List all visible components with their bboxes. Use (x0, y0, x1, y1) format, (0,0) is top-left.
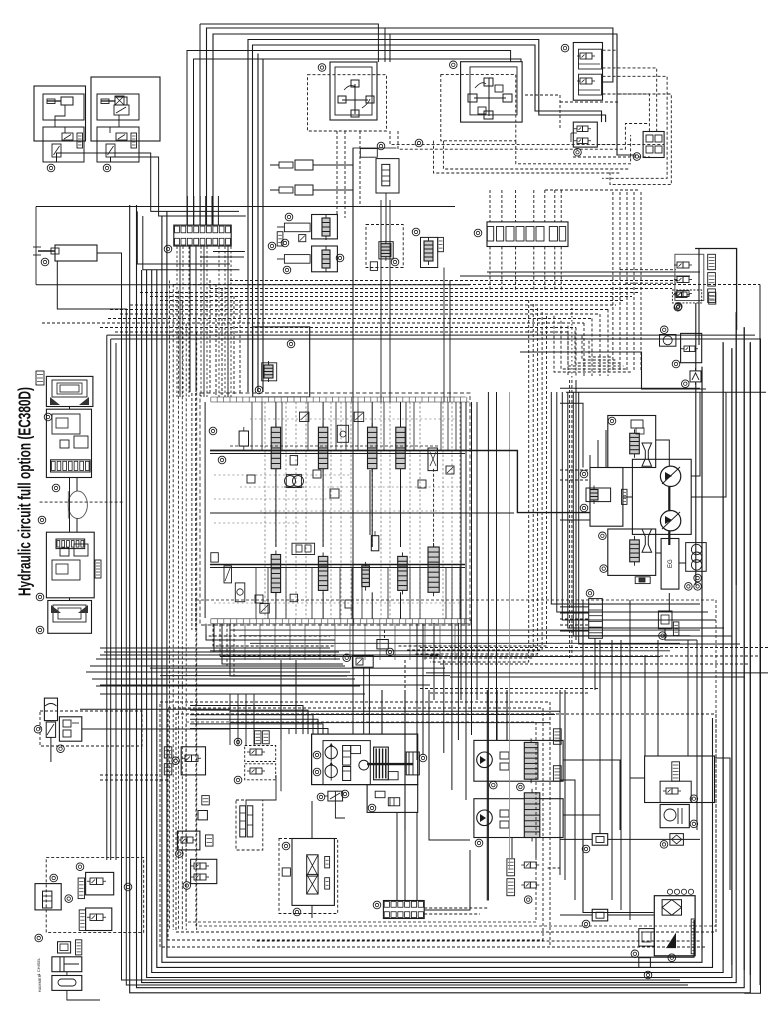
wire (560, 914, 592, 916)
check C1 (239, 427, 248, 450)
wire (115, 343, 117, 860)
spool MB (264, 361, 273, 382)
wire (199, 24, 201, 225)
spool TP2 (322, 246, 330, 272)
node (524, 896, 532, 904)
swing valve lower (608, 529, 656, 575)
node (685, 583, 693, 591)
pump housing (312, 734, 418, 785)
wire (419, 568, 421, 619)
label (263, 731, 270, 744)
wire (257, 54, 259, 393)
wire (696, 640, 698, 830)
node (586, 589, 594, 597)
regulator cap1 (343, 746, 351, 766)
label (553, 729, 561, 745)
wire (204, 402, 206, 618)
valve m1 (300, 412, 309, 421)
hammer block (52, 976, 82, 991)
node (47, 164, 55, 172)
wire (394, 624, 396, 660)
node (574, 149, 582, 157)
wire (560, 469, 590, 471)
valve m7 (313, 470, 321, 478)
wire (179, 247, 181, 398)
pedal cylinder P1 (270, 160, 313, 170)
wire (691, 392, 700, 476)
valve swu1 (631, 420, 644, 434)
node (293, 908, 301, 916)
valve mcv extra3 (418, 480, 426, 488)
wire (322, 592, 324, 618)
wire (304, 624, 306, 660)
wire (262, 946, 706, 948)
wire (143, 216, 240, 270)
node (419, 754, 427, 762)
wire (340, 402, 342, 619)
wire (623, 496, 633, 498)
valve TR2 (577, 74, 602, 95)
valve LP1 (245, 746, 276, 762)
wire (404, 660, 406, 690)
label (202, 796, 210, 805)
wire (209, 280, 211, 395)
wire (352, 290, 354, 734)
valve block BM (377, 640, 388, 649)
node (234, 776, 242, 784)
wire (371, 592, 373, 618)
node (582, 845, 590, 853)
wire (182, 247, 184, 398)
filter capsule B (247, 806, 253, 837)
node (580, 470, 588, 478)
spool S5 (271, 551, 280, 597)
wire (573, 392, 732, 636)
valve mcv extra5 (345, 600, 353, 608)
valve BM2 (352, 656, 373, 667)
wire (90, 665, 345, 667)
dashed box LL (40, 711, 142, 746)
node (318, 64, 326, 72)
wire (424, 850, 470, 910)
wire (190, 729, 328, 735)
label (691, 919, 695, 954)
wire (571, 300, 573, 380)
wire (172, 284, 174, 930)
wire (603, 50, 650, 131)
wire (230, 247, 232, 398)
node (694, 574, 702, 582)
wire (566, 391, 766, 393)
wire (322, 469, 324, 547)
wire (398, 316, 547, 646)
label (164, 747, 172, 758)
wire (267, 568, 269, 619)
wire (603, 68, 657, 131)
wire (57, 261, 688, 985)
wire (189, 246, 191, 392)
wire (210, 288, 672, 290)
wire (230, 445, 440, 447)
wire (419, 402, 421, 619)
valve m14 (292, 543, 315, 554)
wire (501, 190, 503, 222)
wire (533, 190, 535, 222)
wire (111, 339, 761, 993)
wire (186, 196, 188, 225)
wire (451, 623, 453, 790)
wire (162, 216, 702, 962)
valve m8 (446, 466, 454, 474)
wire (281, 402, 283, 451)
valve PF1 (674, 262, 692, 268)
wire (426, 672, 768, 674)
wire (110, 309, 608, 311)
valve block MR (573, 122, 597, 147)
wire (583, 323, 585, 376)
valve m10 (224, 566, 232, 583)
label (76, 940, 82, 955)
wire (97, 253, 680, 980)
wire (285, 568, 287, 619)
wire (194, 59, 522, 225)
spool S2 (318, 423, 327, 473)
valve m11 (235, 583, 245, 602)
connector B2 (592, 909, 608, 921)
wire (409, 624, 411, 660)
wire (389, 34, 391, 62)
node (52, 484, 60, 492)
label (206, 835, 214, 846)
wire (568, 326, 623, 366)
wire (656, 440, 670, 466)
wire (206, 247, 208, 398)
label (553, 766, 561, 782)
wire (140, 292, 640, 294)
spool S7 (362, 562, 370, 591)
wire (487, 271, 700, 273)
wire (563, 815, 600, 834)
wire (230, 280, 680, 282)
wire (307, 402, 309, 451)
wire (608, 914, 655, 916)
wire (560, 403, 583, 467)
wire (443, 660, 445, 753)
node (373, 901, 381, 909)
wire (459, 402, 461, 619)
node (391, 258, 399, 266)
wire (633, 192, 635, 370)
swing valve upper (608, 416, 656, 468)
label (77, 133, 83, 148)
wire (245, 694, 247, 745)
spool S9 (428, 543, 439, 596)
hourglass D (642, 529, 652, 552)
wire (168, 281, 170, 931)
wire (176, 247, 178, 398)
svg-text:HAMMER: HAMMER (37, 974, 42, 992)
wire (66, 972, 68, 976)
wire (160, 300, 624, 302)
valve MS2 (198, 811, 207, 820)
wire (295, 402, 297, 619)
wire (605, 430, 607, 468)
wire (560, 630, 589, 632)
node (675, 303, 683, 311)
wire (459, 568, 461, 619)
wire (424, 913, 480, 915)
wire (130, 205, 751, 993)
wire (560, 780, 575, 900)
valve pr1 (351, 746, 361, 754)
wire (443, 141, 630, 169)
node (336, 254, 344, 262)
wire (406, 312, 542, 650)
wire (222, 624, 343, 664)
wire (607, 310, 609, 377)
wire (679, 562, 686, 564)
wire (371, 402, 373, 427)
wire (429, 690, 470, 840)
label (325, 878, 330, 889)
label (622, 489, 628, 504)
wire (476, 402, 478, 700)
wire (211, 196, 213, 225)
wire (594, 638, 596, 690)
pump P1 (325, 743, 337, 761)
wire (533, 247, 535, 291)
wire (560, 606, 589, 608)
wire (239, 300, 241, 395)
wire (695, 383, 697, 585)
spool S6 (318, 552, 327, 594)
motor housing T1 (46, 376, 93, 406)
gallery (210, 567, 465, 569)
label (709, 292, 716, 304)
wire (451, 402, 453, 619)
wire (82, 728, 230, 730)
node (282, 842, 290, 850)
wire (389, 200, 391, 402)
wire (227, 292, 229, 395)
tank frame (654, 896, 695, 956)
wire (489, 190, 491, 222)
wire (465, 402, 467, 705)
fan motor 2 (477, 810, 493, 826)
wire (345, 402, 347, 451)
valve PV (382, 164, 390, 185)
wire (330, 402, 332, 619)
gauge g2 (691, 552, 701, 562)
label (255, 731, 262, 744)
node (631, 950, 639, 958)
valve BL2 (86, 908, 112, 931)
node (412, 228, 420, 236)
wire (305, 402, 307, 619)
shaft (668, 487, 670, 512)
wire (381, 690, 383, 734)
wire (560, 479, 590, 481)
cooler frame (292, 839, 334, 906)
pilot valve RH (308, 62, 387, 131)
joystick cross LH (468, 78, 512, 119)
wire (564, 690, 566, 880)
wire (191, 393, 193, 630)
wire (551, 392, 700, 604)
node (582, 920, 590, 928)
node (285, 213, 293, 221)
wire (567, 332, 569, 376)
node (172, 757, 180, 765)
node (660, 326, 668, 334)
pto glyph (406, 752, 419, 775)
cylinder C2 (33, 245, 97, 261)
valve pt (324, 791, 343, 801)
fan spool 1 (524, 738, 538, 783)
node (682, 380, 690, 388)
wire (400, 402, 402, 427)
node (490, 781, 498, 789)
swing motor M2 (660, 511, 680, 531)
wire (280, 740, 282, 791)
node (600, 565, 608, 573)
sensor OT (658, 611, 672, 629)
valve m9 (211, 553, 219, 562)
node (36, 593, 44, 601)
valve V2 (52, 144, 61, 162)
wire (185, 323, 187, 930)
valve TPm (299, 235, 306, 242)
wire (69, 598, 71, 601)
wire (442, 402, 444, 619)
node (34, 725, 42, 733)
wire (262, 60, 264, 393)
node (281, 239, 289, 247)
wire (311, 568, 313, 619)
connector strip A (174, 225, 231, 246)
wire (150, 667, 445, 669)
wire (210, 650, 670, 652)
wire (625, 282, 676, 284)
wire (447, 402, 449, 451)
small box tank (639, 958, 651, 968)
wire (715, 758, 731, 890)
node (218, 456, 226, 464)
wire (115, 331, 568, 333)
node (690, 795, 698, 803)
wire (110, 339, 112, 860)
wire (350, 402, 352, 619)
node (183, 882, 191, 890)
wire (210, 453, 465, 455)
wire (100, 684, 430, 686)
wire (336, 131, 338, 215)
hourglass U (642, 443, 652, 466)
wire (385, 193, 387, 242)
wire (177, 291, 179, 930)
wire (471, 402, 473, 735)
node (660, 841, 668, 849)
wire (244, 624, 246, 660)
wire (449, 280, 451, 402)
wire (496, 392, 498, 740)
valve TV (672, 290, 701, 303)
wire (213, 34, 636, 225)
wire (230, 624, 347, 676)
pilot valve LH (441, 62, 522, 141)
wire (575, 331, 619, 363)
node (377, 142, 385, 150)
wire (221, 288, 223, 395)
wire (100, 206, 455, 208)
wire (695, 249, 737, 331)
gallery (210, 564, 465, 566)
valve m13 (290, 594, 298, 602)
node (580, 504, 588, 512)
dashed frame (196, 600, 716, 926)
wire (205, 196, 207, 225)
dashed frame (186, 722, 536, 922)
wire (106, 335, 108, 860)
valve block FR (643, 132, 664, 158)
dashed frame (160, 702, 550, 947)
wire (599, 314, 601, 376)
wire (687, 640, 689, 756)
wire (571, 380, 573, 655)
wire (96, 658, 340, 660)
joystick cross RH (338, 80, 374, 117)
wire (187, 51, 511, 226)
wire (213, 251, 245, 253)
wire (160, 675, 450, 677)
wire (629, 600, 631, 920)
wire (749, 342, 751, 975)
wire (589, 341, 611, 357)
wire (559, 690, 561, 875)
wire (214, 602, 462, 604)
label (277, 232, 283, 246)
valve block TR (573, 43, 602, 101)
wire (589, 455, 591, 468)
wire (443, 268, 445, 403)
label (672, 762, 680, 781)
valve f2a (500, 810, 509, 828)
wire (424, 907, 487, 909)
node (234, 738, 242, 746)
wire (619, 192, 621, 370)
node (450, 61, 458, 69)
valve V5 (106, 144, 115, 162)
node (57, 745, 65, 753)
wire (611, 640, 613, 900)
wire (76, 478, 78, 492)
wire (409, 568, 411, 619)
wire (560, 387, 700, 389)
wire (560, 519, 590, 521)
spool SWD (630, 536, 640, 566)
wire (387, 568, 389, 619)
node (343, 654, 351, 662)
wire (214, 522, 300, 524)
wire (471, 690, 473, 735)
node (386, 648, 394, 656)
wire (344, 131, 346, 218)
wire (224, 247, 226, 398)
wire (190, 706, 303, 735)
node (76, 863, 84, 871)
wire (313, 164, 353, 166)
wire (486, 690, 488, 901)
